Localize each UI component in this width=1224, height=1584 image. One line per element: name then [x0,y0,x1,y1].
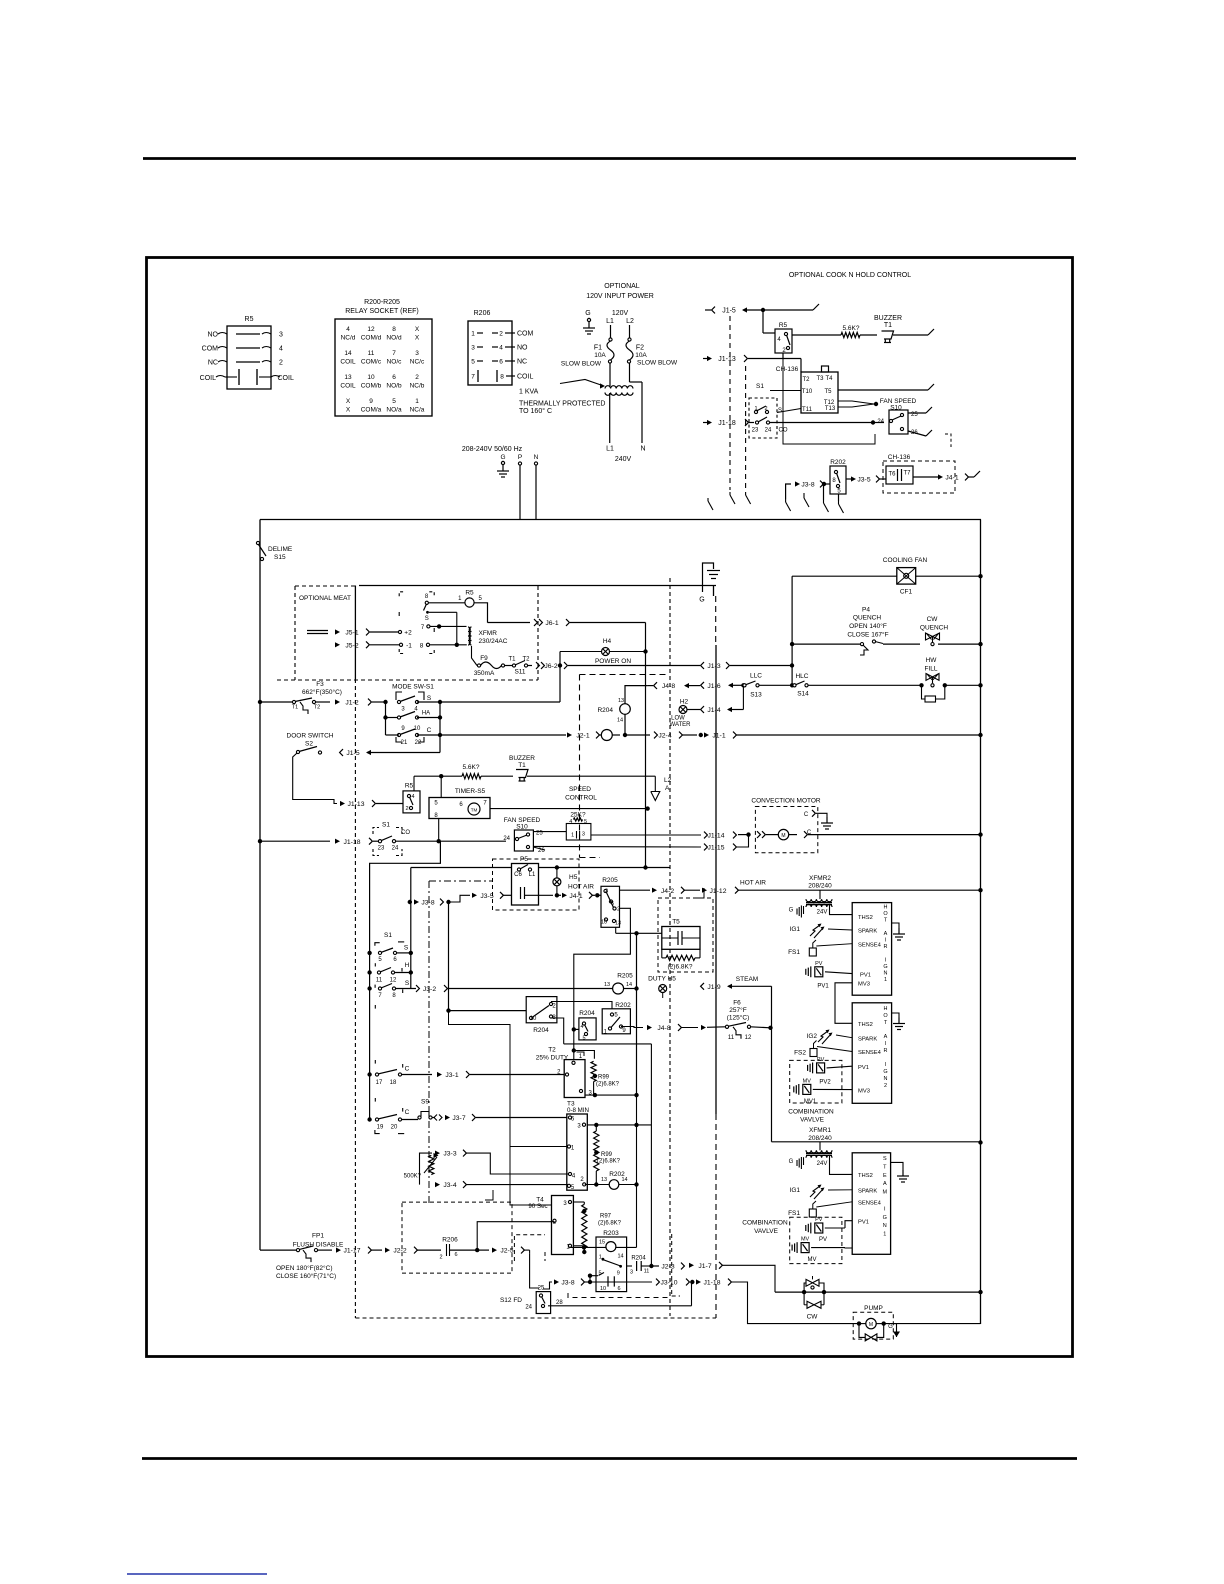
svg-text:J6-1: J6-1 [545,620,558,627]
svg-text:R203: R203 [603,1230,619,1237]
svg-text:A: A [884,931,888,937]
svg-text:P: P [518,454,522,461]
svg-text:10: 10 [600,1286,606,1292]
svg-text:OPTIONAL: OPTIONAL [604,283,640,290]
wire H4 vertical to P5 bus [645,652,647,868]
svg-text:DELIME: DELIME [268,546,293,553]
ground steam IGN1 [891,1162,903,1170]
svg-text:5: 5 [582,1036,585,1042]
svg-text:PV2: PV2 [819,1080,831,1086]
wire S11 down to mode switch [559,666,561,703]
svg-text:28: 28 [556,1300,563,1306]
svg-text:X: X [346,407,351,414]
svg-text:TO 160° C: TO 160° C [519,407,552,415]
connector J3-1 [437,1072,442,1077]
svg-text:11: 11 [368,350,375,357]
svg-text:HLC: HLC [795,673,808,680]
svg-text:1 KVA: 1 KVA [519,389,539,396]
svg-text:22: 22 [415,740,422,746]
dashed box relay bottom edge [568,1293,670,1298]
svg-text:O: O [883,1013,888,1019]
inner solid box right edge [713,586,715,597]
svg-text:PV1: PV1 [817,984,829,990]
dashed box middle top edge [580,674,669,676]
svg-text:R5: R5 [465,590,474,597]
svg-text:4: 4 [569,819,572,825]
svg-text:T5: T5 [824,389,832,395]
wire P5 to H4 rail [539,867,646,869]
wire mode right rail [439,702,441,735]
solenoid MV1 ign2 [793,1086,795,1092]
svg-text:R99: R99 [601,1152,613,1158]
connector J2-2 [371,1249,382,1251]
svg-text:XFMR2: XFMR2 [809,875,831,882]
svg-text:THERMALLY PROTECTED: THERMALLY PROTECTED [519,401,605,408]
svg-text:CONVECTION MOTOR: CONVECTION MOTOR [751,798,821,805]
svg-text:BUZZER: BUZZER [874,315,902,322]
svg-text:J1-2: J1-2 [345,700,358,707]
wire door switch to J1-13 row [293,753,337,804]
svg-text:S14: S14 [797,691,809,698]
svg-text:S: S [427,695,432,702]
wire to R204 coil [572,1027,576,1031]
wire gray loop R5 to S10 [783,353,875,444]
svg-text:SPARK: SPARK [858,1188,877,1194]
wire J2-5 to S12 [530,1254,539,1288]
svg-text:J5-1: J5-1 [345,630,358,637]
dashed box middle left edge [579,675,581,858]
svg-text:COMBINATION: COMBINATION [788,1108,834,1115]
svg-text:(2)6.8K?: (2)6.8K? [598,1220,622,1226]
switch S1 row S upper [378,951,381,954]
wire xfmr to fuse F9 [472,646,478,666]
svg-text:H4: H4 [603,638,612,645]
svg-text:R205: R205 [617,973,633,980]
wire right rail to J2-3 row [650,1044,652,1266]
svg-text:PUMP: PUMP [864,1305,883,1312]
svg-text:24: 24 [503,836,510,842]
svg-text:R99: R99 [598,1075,610,1081]
wire T2 pin3 row [585,1094,637,1096]
svg-text:THS2: THS2 [858,1022,873,1028]
svg-text:500K?: 500K? [404,1174,422,1180]
svg-text:PV: PV [815,961,823,967]
svg-text:J3-7: J3-7 [452,1115,465,1122]
lamp H5 hot air [556,868,558,878]
wire R202 pin5 tail down [838,494,840,501]
switch S1 row C lower [375,1118,378,1121]
svg-text:F1: F1 [594,345,602,352]
svg-text:COIL: COIL [517,374,533,381]
wire check valve row [775,1291,981,1293]
svg-text:NO/d: NO/d [386,335,402,342]
connector J1-5 main [340,749,343,756]
svg-text:6: 6 [617,1286,620,1292]
wire CH-136 T10 stub [770,390,801,392]
wire xfmr2 to THS2 [830,904,853,915]
svg-text:R205: R205 [602,877,618,884]
ground IGN1 [892,923,899,928]
svg-text:X: X [415,326,420,333]
wire J1-3 to quench rail [791,665,793,667]
svg-text:R206: R206 [442,1237,458,1244]
svg-text:FS1: FS1 [788,1210,800,1217]
svg-text:VAVLVE: VAVLVE [800,1116,825,1123]
svg-text:NC/a: NC/a [410,407,425,414]
svg-text:24V: 24V [817,1161,828,1167]
svg-text:N: N [640,446,645,453]
node T2 pin1 branch [572,1048,576,1052]
svg-text:208/240: 208/240 [808,883,832,890]
svg-text:240V: 240V [615,456,632,463]
svg-text:10: 10 [530,1016,537,1022]
connector J3-2 row [416,985,419,992]
switch S11 T1 T2 [504,665,512,667]
svg-text:23: 23 [752,428,759,434]
svg-text:24: 24 [765,428,772,434]
svg-text:1: 1 [571,833,574,839]
svg-text:3: 3 [605,889,608,895]
svg-text:QUENCH: QUENCH [853,615,881,622]
svg-text:G: G [789,908,794,914]
svg-text:(2)6.8K?: (2)6.8K? [668,964,693,971]
connector J1-9 steam [701,983,704,990]
svg-text:H: H [884,1006,888,1012]
svg-text:T1: T1 [518,762,526,769]
svg-text:T2: T2 [802,377,810,383]
node J1-6 S13 junction [741,683,745,687]
svg-text:14: 14 [344,350,352,357]
svg-text:J1-13: J1-13 [347,801,364,808]
svg-text:N: N [883,1223,887,1229]
wire J6-1 vertical to H4 node [645,623,647,652]
svg-text:1: 1 [415,398,419,405]
svg-text:J6-2: J6-2 [544,663,557,670]
svg-text:SPARK: SPARK [858,1036,877,1042]
connector J4-8 upper [647,685,653,687]
svg-text:MV1: MV1 [804,1099,817,1105]
svg-text:5: 5 [611,901,614,907]
motor M convection [757,831,760,838]
svg-text:15: 15 [599,1240,605,1246]
svg-text:POWER ON: POWER ON [595,658,631,665]
svg-text:NO/c: NO/c [387,359,403,366]
svg-text:9: 9 [617,1271,620,1277]
svg-text:20: 20 [391,1125,398,1131]
connector J3-5 cook-n-hold [846,478,852,480]
svg-text:HOT AIR: HOT AIR [740,880,766,887]
svg-text:14: 14 [621,1177,627,1183]
resistor 5.6K [792,334,841,336]
ignition module HOT AIR IGN 1 [852,903,891,996]
inner solid box left edge [354,586,356,680]
svg-text:J4-2: J4-2 [661,888,674,895]
svg-text:J3-8: J3-8 [561,1280,574,1287]
svg-text:VAVLVE: VAVLVE [754,1228,779,1235]
svg-text:F6: F6 [733,1000,741,1007]
svg-text:14: 14 [626,982,632,988]
connector J3-8 cook-n-hold [795,481,800,486]
svg-text:S1: S1 [384,932,392,939]
svg-text:5: 5 [392,398,396,405]
svg-text:J4-1: J4-1 [569,893,582,900]
svg-text:NO: NO [208,332,219,339]
wire MV3 loop to IGN2 [835,983,852,1024]
svg-text:C: C [405,1109,410,1116]
wire S10 pin26 right to J1-15 [534,845,701,848]
dashed right column [671,1234,673,1296]
connector J3-8 main [408,900,412,904]
svg-text:(125°C): (125°C) [727,1014,749,1022]
svg-text:11: 11 [644,1269,650,1275]
svg-text:J4-1: J4-1 [945,475,958,482]
wire T4 pin1 join [573,1245,584,1247]
wire S12 pin24 to J1-18 row [548,1305,692,1307]
svg-text:G: G [585,310,590,317]
svg-text:CLOSE 160°F(71°C): CLOSE 160°F(71°C) [276,1272,336,1280]
ground pump [894,1324,897,1337]
svg-text:COM/c: COM/c [361,359,382,366]
svg-text:8: 8 [420,642,424,649]
svg-text:17: 17 [376,1080,383,1086]
wire J3-8 tail down [786,484,791,499]
svg-text:J1-4: J1-4 [707,707,720,714]
connector J1-4 [687,709,700,711]
svg-text:S: S [883,1156,887,1162]
connector J3-8 bottom [543,1282,552,1289]
svg-text:NC: NC [517,359,527,366]
svg-text:12: 12 [390,978,397,984]
wire pot pin3 to J1-14 [591,834,701,836]
svg-text:J2-4: J2-4 [658,733,671,740]
relay R203 coil [606,1242,616,1252]
svg-text:CW: CW [807,1314,819,1321]
svg-text:230/24AC: 230/24AC [479,638,508,645]
svg-text:13: 13 [618,698,624,704]
svg-text:S: S [425,616,429,622]
wire left bus [259,520,261,1251]
svg-text:SENSE4: SENSE4 [858,1200,882,1206]
svg-text:2: 2 [499,331,503,338]
resistor R97 [582,1204,587,1248]
svg-text:H: H [405,962,410,969]
svg-text:CONTROL: CONTROL [565,795,597,802]
svg-text:J3-3: J3-3 [443,1151,456,1158]
off-page arrow L2 A [654,776,656,791]
svg-text:T2: T2 [314,705,320,711]
svg-text:23: 23 [378,846,385,852]
wire timer to J1-18 row [438,819,440,842]
svg-text:14: 14 [617,718,623,724]
wire quench vertical [791,576,793,685]
svg-text:T3: T3 [816,376,824,382]
svg-text:F2: F2 [636,345,644,352]
svg-text:J1-13: J1-13 [718,356,736,363]
svg-text:RELAY SOCKET (REF): RELAY SOCKET (REF) [345,308,419,315]
svg-text:X: X [346,398,351,405]
wire S contact to xfmr bottom [429,611,457,613]
wire CH-136 T12 T13 out [838,401,874,407]
svg-text:SLOW BLOW: SLOW BLOW [561,361,602,368]
wire J1-13 to CH-136 [748,358,801,360]
svg-text:S1: S1 [756,383,764,390]
connector J4-2 row [620,889,651,891]
wire S1 col to T4 gray [449,1011,552,1205]
connector J1-18 main [258,839,262,843]
svg-text:COM/a: COM/a [361,407,382,414]
svg-text:1: 1 [471,331,475,338]
svg-text:CF1: CF1 [900,589,913,596]
svg-text:WATER: WATER [670,722,692,728]
svg-text:T1: T1 [292,705,298,711]
svg-text:6: 6 [392,374,396,381]
svg-text:NC/c: NC/c [410,359,425,366]
svg-text:CH-136: CH-136 [888,454,911,461]
svg-text:7: 7 [392,350,396,357]
valve pump drain [859,1324,865,1338]
wire J1-5 to mode C rail [439,735,441,753]
row J2-3 J1-7 [689,1263,694,1268]
svg-text:IG1: IG1 [790,1187,801,1194]
wire xfmr1 row [772,1141,981,1143]
svg-text:12: 12 [367,326,375,333]
svg-text:STEAM: STEAM [736,976,758,983]
svg-text:J1-18: J1-18 [703,1280,720,1287]
svg-text:R204: R204 [597,707,613,714]
wire T3 pin1 to gray rail [510,1146,567,1148]
svg-text:1: 1 [884,977,887,983]
svg-text:J1-6: J1-6 [707,683,720,690]
svg-text:R204: R204 [533,1027,549,1034]
connector J1-2 [315,701,330,703]
resistor R99 upper [591,1061,596,1081]
svg-text:3: 3 [471,345,475,352]
svg-text:S13: S13 [750,692,762,699]
svg-text:T7: T7 [903,471,911,477]
svg-text:S11: S11 [514,669,525,676]
svg-text:COM/b: COM/b [361,383,382,390]
svg-text:L2: L2 [626,318,634,325]
svg-text:M: M [883,1190,888,1196]
wire HW fill to bus [945,684,981,686]
lamp steam duty [662,993,664,999]
svg-text:N: N [534,454,539,461]
svg-text:18: 18 [390,1080,397,1086]
svg-text:2: 2 [617,907,620,913]
svg-text:J2-2: J2-2 [393,1248,406,1255]
svg-text:5: 5 [471,359,475,366]
svg-text:R204: R204 [579,1010,595,1017]
wire 7 row to xfmr top [430,625,467,627]
ignition module STEAM IGN 1 [852,1153,890,1255]
svg-text:J3-4: J3-4 [443,1182,456,1189]
svg-text:J4-8: J4-8 [662,683,675,690]
svg-text:FS1: FS1 [788,949,800,956]
wire buzzer node down to R5 [413,776,415,791]
svg-text:TM: TM [471,808,478,813]
wire S1 column feed [370,841,441,1119]
svg-text:IG1: IG1 [790,926,801,933]
ground top middle [703,563,714,592]
wire S1 to CH-136 T11 [777,409,801,413]
svg-text:R5: R5 [779,322,788,329]
svg-text:2: 2 [279,360,283,367]
svg-text:J2-1: J2-1 [576,733,589,740]
dashed box around J2-5 [514,1235,545,1261]
wire T4 pin3 to R97 [573,1201,584,1203]
svg-text:THS2: THS2 [858,1173,873,1179]
svg-text:(2)6.8K?: (2)6.8K? [596,1082,620,1088]
svg-text:P4: P4 [862,607,870,614]
svg-text:4: 4 [580,1024,583,1030]
svg-text:8: 8 [500,374,504,381]
svg-text:25K?: 25K? [570,812,586,819]
svg-text:24: 24 [877,419,884,425]
connector J3-4 [435,1182,440,1187]
svg-text:J5-2: J5-2 [345,642,358,649]
connector J3-3 [420,1153,433,1185]
svg-text:J1-7: J1-7 [698,1263,711,1270]
svg-text:S2: S2 [305,741,313,748]
svg-text:COIL: COIL [278,375,294,382]
svg-text:X: X [415,335,420,342]
svg-text:S: S [778,408,782,414]
svg-text:SLOW BLOW: SLOW BLOW [637,360,678,367]
svg-text:H2: H2 [680,699,689,706]
svg-text:L1: L1 [606,318,614,325]
break marks cook-n-hold bottom [707,498,709,501]
switch P4 quench [790,642,794,646]
svg-text:2: 2 [764,406,767,412]
svg-text:NC/b: NC/b [410,383,425,390]
svg-text:PV1: PV1 [858,1065,869,1071]
svg-text:N: N [884,1076,888,1082]
svg-text:G: G [883,964,887,970]
svg-text:XFMR: XFMR [479,630,498,637]
svg-text:208/240: 208/240 [808,1135,832,1142]
connector J1-13 [703,358,707,360]
svg-text:J3-2: J3-2 [423,986,436,993]
connector J5-1 [307,630,328,632]
svg-text:J1-18: J1-18 [718,420,736,427]
svg-text:J1-9: J1-9 [707,984,720,991]
svg-text:90 Sec: 90 Sec [528,1203,547,1210]
wire vertical T5 to T2 pin3 [636,933,638,1095]
svg-text:MV3: MV3 [858,982,870,988]
wire R206 node to T4 pin2 [477,1222,554,1250]
check valve pair [806,1279,819,1286]
svg-text:COIL: COIL [340,383,356,390]
node xfmr primary bottom [455,643,459,647]
fuse F1 10A slow blow [610,325,612,338]
solenoid MV steam [791,1245,793,1251]
svg-text:T13: T13 [825,406,836,412]
svg-text:+2: +2 [404,630,412,637]
connector J1-17 [317,1249,332,1251]
node J3-8 R203 junction [588,1280,592,1284]
svg-text:J1-1: J1-1 [712,733,725,740]
svg-text:3: 3 [415,350,419,357]
dashed box around CH-136 capacitor [883,461,955,493]
svg-text:3: 3 [630,1270,633,1276]
capacitor R203 pins 10-6 [607,1276,609,1286]
svg-text:T10: T10 [802,389,813,395]
svg-text:HOT AIR: HOT AIR [568,884,594,891]
svg-text:J3-8: J3-8 [421,900,434,907]
svg-text:0-8 MIN: 0-8 MIN [567,1107,589,1114]
svg-text:LLC: LLC [750,673,762,680]
wire T2 top rail [551,1018,564,1044]
